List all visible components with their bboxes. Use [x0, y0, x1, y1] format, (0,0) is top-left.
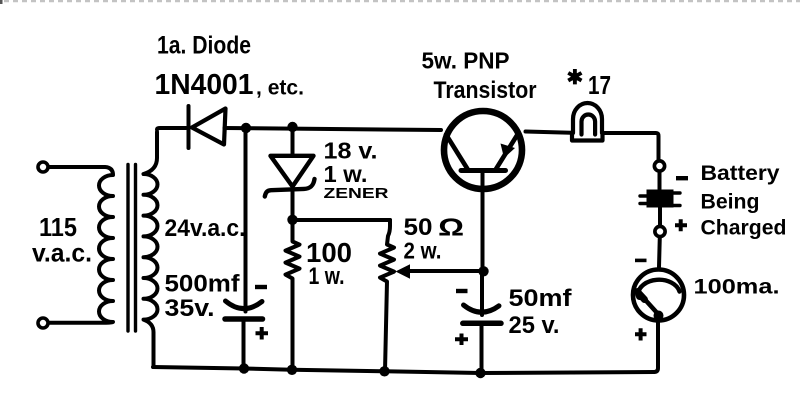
lamp I1 filament: [582, 115, 596, 135]
svg-text:35v.: 35v.: [165, 295, 215, 322]
meter M1 circle: [633, 270, 684, 321]
scan edge dashed line: [4, 0, 800, 2]
svg-text:Charged: Charged: [701, 216, 787, 240]
wiper arrowhead: [396, 264, 411, 278]
wire cap C1 to bus: [242, 322, 246, 369]
transformer core: [126, 165, 129, 332]
svg-text:Transistor: Transistor: [434, 77, 537, 104]
wire meter to bus: [654, 323, 658, 373]
wire battery to terminal: [658, 208, 662, 226]
wire base to cap C2: [480, 271, 484, 315]
svg-text:24v.a.c.: 24v.a.c.: [165, 215, 246, 242]
transistor Q1 circle: [444, 111, 522, 189]
wire terminal to battery: [658, 172, 662, 190]
zener D2 top lead: [291, 127, 295, 156]
node junction pot/bus: [379, 366, 389, 376]
node junction zener/resistor: [287, 215, 297, 225]
potentiometer R2 50ohm: [380, 220, 394, 371]
wire diode to transistor: [225, 128, 442, 130]
svg-text:v.a.c.: v.a.c.: [32, 238, 92, 268]
svg-text:25 v.: 25 v.: [509, 312, 560, 339]
svg-text:17: 17: [588, 70, 611, 100]
wire transistor to lamp: [526, 132, 572, 133]
svg-text:1 w.: 1 w.: [324, 161, 368, 187]
meter M1 needle: [640, 294, 659, 315]
label C2 plus: [455, 334, 468, 346]
transformer T1 primary: [49, 167, 114, 323]
svg-text:Ω: Ω: [438, 215, 464, 242]
transistor Q1 emitter stroke: [446, 135, 468, 170]
wire lamp to battery branch: [605, 133, 659, 161]
lamp I1 #17 bulb outline: [573, 103, 602, 133]
svg-text:ZENER: ZENER: [324, 185, 389, 202]
scan corner mark: [0, 0, 3, 4]
wire base down: [481, 171, 485, 272]
svg-text:5w. PNP: 5w. PNP: [422, 48, 510, 74]
resistor R1 100: [286, 220, 300, 367]
node junction wiper/base: [478, 266, 488, 276]
label meter plus: [635, 328, 647, 340]
zener D2 triangle: [271, 156, 314, 187]
zener D2 bar: [265, 179, 315, 197]
diode D1 1N4001 cathode bar: [187, 106, 191, 148]
terminal battery minus: [654, 161, 664, 171]
transformer T1 secondary: [144, 132, 158, 367]
svg-text:Battery: Battery: [701, 161, 780, 185]
label battery minus: [676, 176, 688, 180]
transistor Q1 base bar: [461, 168, 506, 173]
label meter minus: [635, 259, 647, 263]
capacitor C2 50mf curved plate: [464, 305, 500, 312]
svg-text:2 w.: 2 w.: [404, 238, 442, 264]
transistor Q1 collector stroke: [496, 135, 518, 170]
label battery plus: [675, 219, 687, 231]
capacitor C1 500mf curved plate: [226, 301, 263, 309]
battery B1 plates: [647, 190, 674, 208]
node junction cap/bus: [239, 363, 249, 373]
diode D1 triangle: [192, 109, 226, 145]
svg-text:Being: Being: [701, 190, 760, 214]
meter M1 pivot: [654, 311, 664, 321]
capacitor C1 500mf straight plate: [225, 316, 263, 322]
wire bottom bus: [153, 367, 654, 373]
wire zener to pot: [293, 218, 391, 222]
wire cap C2 to bus: [480, 326, 484, 372]
svg-text:, etc.: , etc.: [256, 77, 304, 100]
svg-text:1 w.: 1 w.: [309, 263, 345, 290]
svg-text:✱: ✱: [567, 67, 584, 89]
svg-text:1a. Diode: 1a. Diode: [157, 32, 251, 60]
terminal bottom-left: [38, 318, 48, 328]
node junction R1/bus: [287, 365, 297, 375]
svg-text:18 v.: 18 v.: [324, 138, 378, 164]
svg-text:50mf: 50mf: [509, 285, 573, 312]
meter M1 scale arc: [638, 280, 680, 295]
wire cap C1 branch: [244, 128, 248, 312]
svg-text:100ma.: 100ma.: [694, 276, 780, 299]
label C1 minus: [255, 285, 267, 289]
wire terminal to meter: [657, 237, 662, 267]
wire wiper arrow: [406, 269, 484, 273]
label C2 minus: [456, 289, 468, 293]
label C1 plus: [256, 327, 269, 340]
node junction C2/bus: [475, 368, 485, 378]
svg-text:500mf: 500mf: [165, 271, 241, 298]
capacitor C2 50mf straight plate: [463, 321, 501, 327]
terminal top-left: [38, 162, 48, 172]
terminal battery plus: [655, 226, 665, 236]
node junction zener/rail: [287, 122, 297, 132]
lamp I1 base: [572, 133, 603, 141]
svg-text:1N4001: 1N4001: [155, 69, 254, 101]
zener D2 bottom lead: [291, 187, 295, 220]
transistor Q1 arrow: [501, 144, 516, 159]
wire secondary top to diode: [157, 128, 186, 130]
node junction diode/cap: [241, 123, 251, 133]
